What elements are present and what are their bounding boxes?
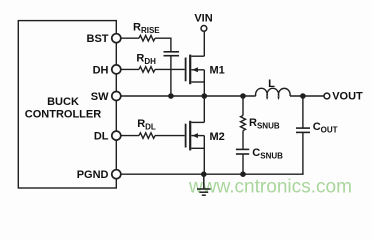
label BST xyxy=(87,33,109,45)
capacitor CSNUB xyxy=(236,149,249,154)
svg-text:VIN: VIN xyxy=(194,12,212,24)
label VIN xyxy=(194,12,212,24)
junction node SW/COUT xyxy=(300,93,306,99)
capacitor COUT xyxy=(296,128,310,132)
capacitor CBST (bootstrap) xyxy=(164,52,180,56)
label L xyxy=(268,78,275,90)
junction node SW/M1-M2 xyxy=(202,93,208,99)
transistor M2 xyxy=(186,96,205,174)
label M1 xyxy=(210,64,225,76)
label RSNUB xyxy=(249,117,280,131)
wire CBST to SW rail xyxy=(170,56,172,96)
label SW xyxy=(91,91,109,103)
label DH xyxy=(93,64,109,76)
label CSNUB xyxy=(252,147,283,161)
label M2 xyxy=(210,131,225,143)
ground rail wire xyxy=(121,173,303,174)
wire SW to COUT xyxy=(302,96,304,128)
label RDL xyxy=(137,118,156,132)
resistor RDL xyxy=(139,133,155,139)
junction node gnd/M2 xyxy=(201,171,207,177)
label DL xyxy=(94,131,109,143)
wire CSNUB to ground rail xyxy=(242,155,244,175)
label VOUT xyxy=(332,90,363,102)
pin DH xyxy=(112,65,121,74)
wire RDL to M2 gate xyxy=(155,135,185,137)
pin PGND xyxy=(112,170,121,179)
svg-text:CONTROLLER: CONTROLLER xyxy=(25,109,101,121)
wire DL pin to RDL xyxy=(121,135,139,137)
wire COUT to ground rail xyxy=(302,133,304,174)
junction node SW/CBST xyxy=(168,93,174,99)
VIN terminal circle xyxy=(201,26,207,32)
svg-text:L: L xyxy=(268,78,275,90)
svg-text:M1: M1 xyxy=(210,64,225,76)
svg-text:DH: DH xyxy=(93,64,109,76)
junction node gnd/CSNUB xyxy=(240,171,246,177)
resistor RRISE xyxy=(139,35,155,41)
svg-text:M2: M2 xyxy=(210,131,225,143)
VOUT terminal circle xyxy=(324,93,330,99)
junction node SW/RSNUB xyxy=(240,93,246,99)
inductor L xyxy=(256,88,291,98)
transistor M1 xyxy=(186,31,205,96)
wire L to VOUT xyxy=(290,95,324,97)
svg-text:BUCK: BUCK xyxy=(47,96,79,108)
pin SW xyxy=(112,92,121,101)
svg-text:SW: SW xyxy=(91,91,109,103)
resistor RDH xyxy=(139,67,155,73)
svg-text:DL: DL xyxy=(94,131,109,143)
label RRISE xyxy=(133,22,160,36)
buck controller box U1 xyxy=(18,21,116,188)
wire SW to RSNUB xyxy=(242,96,244,116)
pin BST xyxy=(112,34,121,43)
svg-text:PGND: PGND xyxy=(77,169,109,181)
pin DL xyxy=(112,131,121,140)
svg-text:www.cntronics.com: www.cntronics.com xyxy=(188,177,352,198)
wire RSNUB to CSNUB xyxy=(242,131,244,149)
label BUCK CONTROLLER xyxy=(25,96,101,120)
svg-text:VOUT: VOUT xyxy=(332,90,363,102)
svg-text:BST: BST xyxy=(87,33,109,45)
label COUT xyxy=(313,121,338,135)
wire DH pin to RDH xyxy=(121,68,139,70)
resistor RSNUB xyxy=(241,116,246,131)
label PGND xyxy=(77,169,109,181)
watermark www.cntronics.com xyxy=(188,177,352,198)
wire RRISE to bootstrap cap corner xyxy=(155,38,171,51)
ground symbol xyxy=(197,174,211,195)
SW rail wire xyxy=(121,95,256,97)
label RDH xyxy=(136,53,156,67)
wire BST pin to RRISE xyxy=(121,37,139,39)
wire RDH to M1 gate xyxy=(155,68,185,70)
